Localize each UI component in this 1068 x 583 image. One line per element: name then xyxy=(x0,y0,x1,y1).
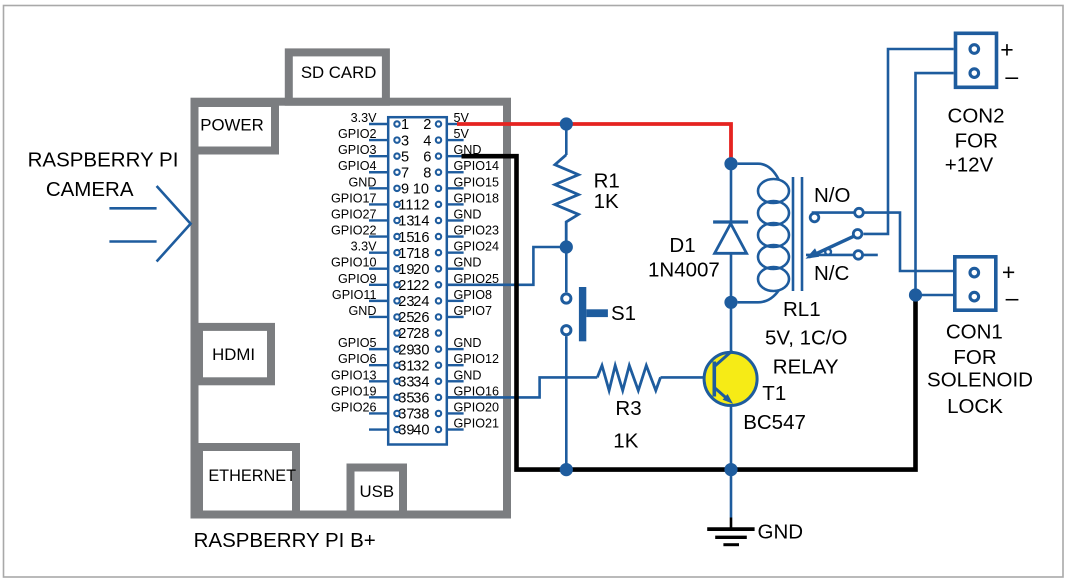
svg-text:29: 29 xyxy=(398,342,414,358)
N/O contact circle xyxy=(855,208,864,217)
svg-text:–: – xyxy=(1005,63,1018,89)
node 5V/R1 xyxy=(560,117,573,130)
svg-text:FOR: FOR xyxy=(953,346,996,369)
label D1 1N4007 xyxy=(648,234,720,282)
wire R3 to T1 base xyxy=(661,376,713,379)
svg-text:GPIO13: GPIO13 xyxy=(331,368,377,382)
svg-text:N/O: N/O xyxy=(814,184,850,207)
svg-text:35: 35 xyxy=(398,391,414,407)
transistor T1 BC547 xyxy=(704,351,757,406)
svg-text:37: 37 xyxy=(398,407,414,423)
svg-text:6: 6 xyxy=(423,149,431,165)
GPIO header J1 40-pin connector box xyxy=(388,117,447,444)
wire 5V node down through R1 chain xyxy=(565,124,568,155)
svg-text:GPIO3: GPIO3 xyxy=(338,143,377,157)
svg-text:GPIO7: GPIO7 xyxy=(454,304,493,318)
SD CARD block xyxy=(289,52,386,101)
pin row 1/2 xyxy=(351,111,470,133)
svg-text:CAMERA: CAMERA xyxy=(46,178,134,201)
svg-text:GND: GND xyxy=(349,304,377,318)
svg-text:2: 2 xyxy=(423,117,431,133)
wire emitter to ground bus xyxy=(730,402,733,470)
pushbutton switch S1 xyxy=(562,287,608,341)
svg-text:8: 8 xyxy=(423,165,431,181)
node emitter/ground bus xyxy=(724,463,737,476)
pin row 15/16 xyxy=(331,224,499,246)
pin row 17/18 xyxy=(351,240,499,262)
pin row 5/6 xyxy=(338,143,482,165)
svg-text:26: 26 xyxy=(413,310,429,326)
label RASPBERRY PI CAMERA xyxy=(28,149,179,202)
pin row 33/34 xyxy=(331,368,482,390)
svg-text:GPIO18: GPIO18 xyxy=(454,191,500,205)
svg-text:22: 22 xyxy=(413,278,429,294)
svg-text:GPIO5: GPIO5 xyxy=(338,336,377,350)
svg-text:CON1: CON1 xyxy=(946,321,1003,344)
svg-text:34: 34 xyxy=(413,374,429,390)
svg-text:GND: GND xyxy=(454,336,482,350)
svg-text:3.3V: 3.3V xyxy=(351,111,378,125)
svg-text:GND: GND xyxy=(758,521,804,544)
N/C contact line xyxy=(806,251,878,260)
svg-text:RASPBERRY PI: RASPBERRY PI xyxy=(28,149,179,172)
node relay/diode top xyxy=(724,157,737,170)
svg-text:27: 27 xyxy=(398,326,414,342)
ETHERNET block xyxy=(199,447,296,515)
svg-text:11: 11 xyxy=(398,198,413,214)
svg-text:GPIO19: GPIO19 xyxy=(331,384,377,398)
wire GPIO16 (pin 36) to R3 xyxy=(448,377,597,397)
relay pole terminal circle xyxy=(810,213,819,222)
pin row 7/8 xyxy=(338,159,499,181)
wire GPIO25 (pin 22) to R1/S1 node xyxy=(448,247,566,285)
wire relay top node to diode xyxy=(730,164,733,222)
Raspberry Pi B+ board outline xyxy=(195,102,508,515)
svg-text:D1: D1 xyxy=(669,234,695,257)
pin row 31/32 xyxy=(338,352,499,374)
wire N/O contact to CON1 plus xyxy=(812,213,953,271)
svg-text:36: 36 xyxy=(413,391,429,407)
svg-text:GPIO17: GPIO17 xyxy=(331,191,377,205)
connector CON2 xyxy=(956,33,997,87)
pin row 27/28 xyxy=(394,326,441,342)
relay core xyxy=(793,177,802,291)
node R1/S1/GPIO25 xyxy=(560,240,573,253)
pin row 29/30 xyxy=(338,336,482,358)
svg-text:33: 33 xyxy=(398,374,414,390)
resistor R1 1K xyxy=(555,155,579,247)
label RL1 5V 1C/O RELAY xyxy=(765,298,847,379)
svg-text:23: 23 xyxy=(398,294,414,310)
pin row 25/26 xyxy=(349,304,493,326)
svg-text:T1: T1 xyxy=(762,382,786,405)
svg-text:GPIO15: GPIO15 xyxy=(454,175,500,189)
svg-text:GPIO11: GPIO11 xyxy=(332,288,377,302)
node diode/relay/collector xyxy=(724,296,737,309)
svg-text:GND: GND xyxy=(349,175,377,189)
svg-text:9: 9 xyxy=(401,182,409,198)
red 5V wire from pin 2 to relay/diode node xyxy=(457,124,731,164)
pin row 19/20 xyxy=(331,256,482,278)
svg-text:GPIO20: GPIO20 xyxy=(454,400,500,414)
svg-text:30: 30 xyxy=(413,342,429,358)
svg-text:38: 38 xyxy=(413,407,429,423)
svg-text:N/C: N/C xyxy=(814,262,850,285)
svg-text:GPIO6: GPIO6 xyxy=(338,352,377,366)
svg-text:GPIO4: GPIO4 xyxy=(338,159,377,173)
svg-text:14: 14 xyxy=(413,214,429,230)
pin row 13/14 xyxy=(331,207,482,229)
pin row 21/22 xyxy=(338,272,499,294)
relay armature arm xyxy=(806,230,862,259)
svg-text:40: 40 xyxy=(413,423,429,439)
label CON1 FOR SOLENOID LOCK xyxy=(927,321,1033,419)
svg-text:32: 32 xyxy=(413,358,429,374)
svg-text:BC547: BC547 xyxy=(743,411,806,434)
svg-text:1K: 1K xyxy=(594,190,619,213)
pin row 11/12 xyxy=(331,191,499,213)
svg-text:RELAY: RELAY xyxy=(773,356,839,379)
svg-text:GPIO22: GPIO22 xyxy=(331,224,377,238)
svg-text:SD CARD: SD CARD xyxy=(301,63,377,82)
svg-text:GPIO10: GPIO10 xyxy=(331,256,377,270)
CON2 polarity marks xyxy=(1000,37,1018,90)
svg-text:7: 7 xyxy=(401,165,409,181)
svg-text:+: + xyxy=(1002,259,1015,285)
svg-text:3: 3 xyxy=(401,133,409,149)
svg-text:1: 1 xyxy=(401,117,409,133)
wire bus to ground symbol xyxy=(730,470,733,518)
svg-text:16: 16 xyxy=(413,230,429,246)
svg-text:GPIO14: GPIO14 xyxy=(454,159,500,173)
wire CON2 minus down to CON1 minus node xyxy=(916,73,954,295)
svg-text:GPIO21: GPIO21 xyxy=(454,417,500,431)
svg-text:CON2: CON2 xyxy=(948,105,1005,128)
svg-text:GND: GND xyxy=(454,207,482,221)
svg-text:GPIO8: GPIO8 xyxy=(454,288,493,302)
svg-text:5V, 1C/O: 5V, 1C/O xyxy=(765,327,847,350)
label T1 BC547 xyxy=(743,382,806,434)
svg-text:21: 21 xyxy=(398,278,414,294)
CON1 polarity marks xyxy=(1002,259,1019,311)
svg-text:25: 25 xyxy=(398,310,414,326)
HDMI block xyxy=(199,327,271,381)
svg-text:12: 12 xyxy=(413,198,429,214)
svg-text:17: 17 xyxy=(398,246,414,262)
svg-text:RASPBERRY PI B+: RASPBERRY PI B+ xyxy=(194,529,376,552)
svg-text:5: 5 xyxy=(401,149,409,165)
svg-text:RL1: RL1 xyxy=(783,298,821,321)
svg-text:LOCK: LOCK xyxy=(947,395,1003,418)
svg-text:GPIO9: GPIO9 xyxy=(338,272,377,286)
label R3 1K xyxy=(613,397,641,453)
svg-text:GPIO27: GPIO27 xyxy=(331,207,377,221)
svg-text:3.3V: 3.3V xyxy=(351,240,378,254)
resistor R3 1K xyxy=(597,366,660,391)
svg-text:ETHERNET: ETHERNET xyxy=(208,467,296,485)
svg-text:+12V: +12V xyxy=(945,154,994,177)
svg-text:FOR: FOR xyxy=(955,130,998,153)
pin row 23/24 xyxy=(332,288,492,310)
diode D1 1N4007 xyxy=(713,222,748,253)
wire CON2 plus to pole arm xyxy=(863,49,953,234)
svg-text:13: 13 xyxy=(398,214,414,230)
POWER block xyxy=(195,103,276,151)
svg-text:28: 28 xyxy=(413,326,429,342)
wire collector node to T1 xyxy=(730,302,733,352)
svg-text:SOLENOID: SOLENOID xyxy=(927,369,1033,392)
svg-text:39: 39 xyxy=(398,423,414,439)
connector CON1 xyxy=(955,257,996,310)
svg-text:–: – xyxy=(1006,285,1019,311)
wire R1 node to S1 xyxy=(565,247,568,292)
svg-text:GPIO12: GPIO12 xyxy=(454,352,500,366)
svg-text:GPIO24: GPIO24 xyxy=(454,240,500,254)
pin row 35/36 xyxy=(331,384,499,406)
node S1/ground bus xyxy=(560,463,573,476)
svg-text:15: 15 xyxy=(398,230,414,246)
pin row 9/10 xyxy=(349,175,500,197)
relay RL1 coil xyxy=(738,164,789,303)
svg-text:5V: 5V xyxy=(454,127,470,141)
svg-text:GND: GND xyxy=(454,256,482,270)
svg-text:+: + xyxy=(1000,37,1013,63)
svg-text:GPIO2: GPIO2 xyxy=(338,127,377,141)
camera input arrow xyxy=(109,186,190,262)
USB block xyxy=(351,468,404,515)
svg-text:GPIO23: GPIO23 xyxy=(454,224,500,238)
svg-text:19: 19 xyxy=(398,262,414,278)
svg-text:31: 31 xyxy=(398,358,414,374)
svg-text:R3: R3 xyxy=(615,397,641,420)
svg-text:1N4007: 1N4007 xyxy=(648,259,720,282)
svg-text:GND: GND xyxy=(454,368,482,382)
pin row 39/40 xyxy=(369,417,499,439)
wire S1 to ground bus xyxy=(565,336,568,470)
label CON2 FOR +12V xyxy=(945,105,1005,177)
node CON1 minus/ground xyxy=(909,288,922,301)
svg-text:24: 24 xyxy=(413,294,429,310)
svg-text:GPIO26: GPIO26 xyxy=(331,400,377,414)
wire diode to collector node xyxy=(730,253,733,302)
svg-text:HDMI: HDMI xyxy=(212,345,255,364)
black ground wire pin6 - bus - CON1 minus xyxy=(462,156,916,469)
svg-text:20: 20 xyxy=(413,262,429,278)
svg-text:USB: USB xyxy=(360,482,395,501)
svg-text:S1: S1 xyxy=(611,302,636,325)
svg-text:18: 18 xyxy=(413,246,429,262)
svg-text:4: 4 xyxy=(423,133,431,149)
svg-text:10: 10 xyxy=(413,182,429,198)
pin row 3/4 xyxy=(338,127,470,149)
wire node to CON1 minus xyxy=(916,294,954,297)
label R1 1K xyxy=(594,170,620,214)
pin row 37/38 xyxy=(331,400,499,422)
ground symbol xyxy=(707,518,754,545)
svg-text:POWER: POWER xyxy=(200,116,263,135)
svg-text:1K: 1K xyxy=(613,430,638,453)
